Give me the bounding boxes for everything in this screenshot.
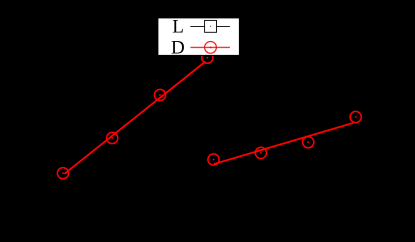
D series left marker 1 (57, 168, 68, 179)
D series left marker 4 (partly under legend) (202, 52, 213, 63)
legend marker D (circle) (205, 42, 217, 54)
D series left marker 2 (107, 132, 118, 143)
legend box (158, 18, 240, 56)
fit line D-right (214, 123, 353, 164)
svg-text:D: D (171, 38, 185, 59)
D series right marker 4 (350, 111, 361, 122)
legend marker D center dot (210, 47, 212, 49)
legend sample line D (190, 46, 230, 48)
legend marker L (square) (205, 20, 217, 32)
legend marker L center dot (210, 26, 211, 27)
D series right marker 2 (255, 147, 266, 158)
D series left marker 3 (154, 89, 165, 100)
svg-text:L: L (172, 17, 184, 38)
fit line D-left (64, 62, 205, 174)
D series right marker 1 (208, 154, 219, 165)
D series right marker 3 (303, 137, 314, 148)
legend sample line L (190, 25, 230, 27)
